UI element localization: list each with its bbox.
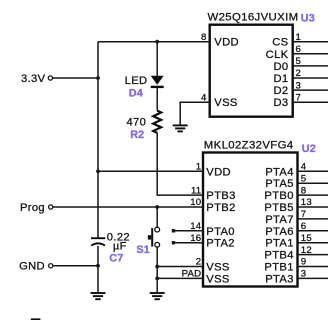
U2 pin 8 stub PTB0 [298,194,328,196]
svg-text:3: 3 [296,80,302,91]
svg-text:PTB4: PTB4 [264,250,293,262]
svg-text:15: 15 [301,233,312,244]
ground symbol under S1 [150,293,165,299]
IC U2 body MKL02Z32VFG4 [203,153,298,287]
svg-text:LED: LED [125,75,148,87]
U3 pin 1 stub CS [293,41,328,43]
svg-text:S1: S1 [136,244,150,256]
svg-text:3.3V: 3.3V [21,73,46,85]
svg-text:PTA2: PTA2 [206,238,235,250]
svg-text:C7: C7 [109,253,123,265]
svg-text:VDD: VDD [206,166,231,178]
switch S1 plunger nub [148,235,151,239]
wire PTA2 stub [174,242,204,244]
svg-text:6: 6 [301,221,307,232]
svg-text:D0: D0 [273,61,288,73]
svg-text:VSS: VSS [214,97,237,109]
svg-text:PTA7: PTA7 [265,214,294,226]
svg-text:PTA0: PTA0 [206,226,235,238]
terminal 3.3V circle [48,76,52,80]
U2 pin 15 stub PTA1 [298,242,328,244]
svg-text:W25Q16JVUXIM: W25Q16JVUXIM [208,12,299,24]
switch S1 top contact [155,227,160,232]
svg-text:U2: U2 [302,143,316,155]
svg-text:7: 7 [301,209,307,220]
U3 pin 5 stub D0 [293,65,328,67]
wire VSS pin2 stub [157,266,203,268]
wire Prog junction to switch [156,207,158,227]
node junction U2 VDD [96,169,100,173]
svg-text:D4: D4 [129,87,143,99]
node junction VSS2 [155,265,159,269]
switch S1 plunger bar [151,228,153,247]
U2 pin 4 stub PTA4 [298,170,328,172]
node junction VSSPAD [155,277,159,281]
U2 pin 6 stub PTA6 [298,230,328,232]
svg-text:PTA6: PTA6 [265,226,294,238]
svg-text:PTA4: PTA4 [265,166,294,178]
IC U3 body W25Q16JVUXIM [210,25,293,117]
wire switch to ground [156,247,158,293]
svg-text:PTA5: PTA5 [265,178,294,190]
wire 3.3V to rail [53,77,98,79]
svg-text:VSS: VSS [206,262,229,274]
U2 pin 12 stub PTB4 [298,254,328,256]
node junction GND rail [96,264,100,268]
svg-text:U3: U3 [301,12,315,24]
node junction switch branch [155,205,159,209]
LED D4 triangle [151,76,164,85]
node junction 3.3V rail [96,76,100,80]
svg-text:PTB5: PTB5 [264,202,293,214]
node PTA0 stub end [172,229,175,232]
svg-text:µF: µF [113,240,127,252]
capacitor C7 top plate [91,237,105,239]
wire C7 to GND rail [97,246,99,266]
node junction LED branch [155,40,159,44]
wire U3 VDD to rail [98,41,210,43]
resistor R2 zigzag [153,111,161,133]
ground symbol left [91,293,106,299]
svg-text:12: 12 [301,245,312,256]
svg-text:7: 7 [296,92,302,103]
svg-text:PTB1: PTB1 [264,262,293,274]
U2 pin 3 stub PTA3 [298,277,328,279]
terminal Prog circle [49,205,53,209]
U3 pin 7 stub D3 [293,101,328,103]
wire PTA0 stub [174,230,204,232]
ground under U3 VSS [173,125,188,131]
svg-text:2: 2 [296,68,302,79]
svg-text:PTA3: PTA3 [265,273,294,285]
svg-text:Prog: Prog [20,202,45,214]
wire VSS PAD stub [157,277,203,279]
node PTA2 stub end [172,241,175,244]
U3 pin 6 stub CLK [293,53,328,55]
wire GND to rail [53,265,98,267]
wire top to LED [156,42,158,76]
partial label fragment bottom left [31,318,41,320]
svg-text:VDD: VDD [214,37,239,49]
svg-text:PTB3: PTB3 [206,190,235,202]
U3 pin 3 stub D2 [293,89,328,91]
switch S1 bottom contact [155,242,160,247]
U3 pin 2 stub D1 [293,77,328,79]
LED D4 cathode bar [151,86,164,88]
wire Prog to PTB2 [53,206,203,208]
svg-text:6: 6 [296,44,302,55]
svg-text:4: 4 [301,162,307,173]
svg-text:CLK: CLK [266,49,289,61]
svg-text:MKL02Z32VFG4: MKL02Z32VFG4 [204,139,294,151]
wire U2 VDD to rail [98,170,203,172]
svg-text:PTB2: PTB2 [206,202,235,214]
svg-text:5: 5 [301,173,307,184]
U2 pin 13 stub PTB5 [298,206,328,208]
svg-text:D3: D3 [273,97,288,109]
svg-text:3: 3 [301,269,307,280]
wire U3 VSS stub [180,102,210,124]
svg-text:D2: D2 [273,85,288,97]
svg-text:R2: R2 [130,129,144,141]
U2 pin 9 stub PTB1 [298,266,328,268]
U2 pin 7 stub PTA7 [298,218,328,220]
terminal GND circle [49,264,53,268]
svg-text:8: 8 [301,185,307,196]
svg-text:13: 13 [301,197,312,208]
svg-text:470: 470 [126,116,146,128]
svg-text:PTB0: PTB0 [264,190,293,202]
svg-text:VSS: VSS [206,273,229,285]
U2 pin 5 stub PTA5 [298,182,328,184]
svg-text:D1: D1 [273,73,288,85]
svg-text:1: 1 [296,32,302,43]
svg-text:CS: CS [272,37,288,49]
svg-text:5: 5 [296,56,302,67]
svg-text:GND: GND [19,261,45,273]
wire resistor to PTB3 [157,133,203,195]
3.3V rail vertical wire [97,42,99,238]
capacitor C7 curved plate [91,243,105,245]
svg-text:9: 9 [301,257,307,268]
wire rail to ground symbol [97,266,99,293]
wire LED to resistor [156,88,158,111]
svg-text:PTA1: PTA1 [265,238,294,250]
